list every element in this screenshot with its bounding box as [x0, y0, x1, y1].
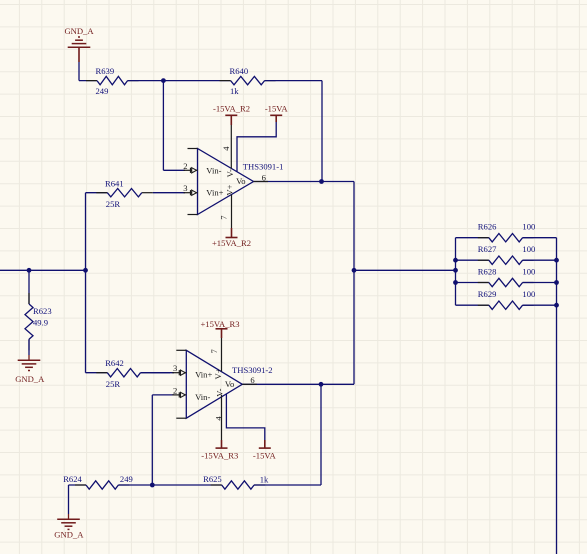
svg-text:1k: 1k: [260, 474, 269, 484]
svg-text:2: 2: [183, 161, 187, 171]
svg-text:25R: 25R: [106, 199, 121, 209]
svg-text:6: 6: [262, 172, 267, 182]
svg-text:GND_A: GND_A: [54, 530, 84, 540]
svg-text:4: 4: [221, 146, 231, 151]
svg-text:7: 7: [219, 215, 229, 220]
svg-text:Vin-: Vin-: [195, 392, 210, 402]
svg-text:R626: R626: [478, 222, 497, 232]
svg-text:249: 249: [96, 86, 109, 96]
svg-text:7: 7: [209, 349, 219, 354]
svg-text:100: 100: [522, 266, 535, 276]
svg-text:Vo: Vo: [225, 379, 234, 389]
svg-text:+15VA_R2: +15VA_R2: [212, 238, 251, 248]
svg-text:R628: R628: [478, 266, 497, 276]
svg-text:R625: R625: [203, 474, 222, 484]
svg-text:Vin+: Vin+: [206, 188, 223, 198]
svg-text:THS3091-2: THS3091-2: [232, 365, 273, 375]
svg-text:Vin+: Vin+: [195, 370, 212, 380]
svg-text:V-: V-: [225, 169, 235, 177]
svg-text:R623: R623: [33, 306, 52, 316]
svg-text:THS3091-1: THS3091-1: [243, 161, 284, 171]
svg-text:R639: R639: [96, 66, 115, 76]
svg-text:-15VA: -15VA: [265, 103, 289, 113]
svg-text:2: 2: [173, 385, 177, 395]
svg-text:-15VA_R2: -15VA_R2: [213, 103, 250, 113]
svg-text:100: 100: [522, 244, 535, 254]
svg-text:4: 4: [214, 416, 224, 421]
svg-text:GND_A: GND_A: [15, 374, 45, 384]
svg-text:Vo: Vo: [236, 176, 245, 186]
svg-text:R640: R640: [230, 66, 249, 76]
svg-text:V+: V+: [225, 184, 235, 195]
svg-text:-15VA_R3: -15VA_R3: [201, 451, 238, 461]
svg-text:R629: R629: [478, 289, 497, 299]
svg-text:3: 3: [183, 183, 187, 193]
svg-text:1k: 1k: [230, 86, 239, 96]
svg-text:R624: R624: [63, 474, 82, 484]
svg-text:100: 100: [522, 222, 535, 232]
svg-text:249: 249: [120, 474, 133, 484]
svg-text:GND_A: GND_A: [64, 26, 94, 36]
svg-text:-15VA: -15VA: [253, 451, 277, 461]
svg-text:25R: 25R: [106, 379, 121, 389]
svg-text:100: 100: [522, 289, 535, 299]
svg-text:V-: V-: [214, 388, 224, 396]
svg-text:3: 3: [173, 363, 177, 373]
svg-text:R627: R627: [478, 244, 497, 254]
svg-text:R641: R641: [105, 179, 124, 189]
svg-text:R642: R642: [105, 358, 124, 368]
svg-text:+15VA_R3: +15VA_R3: [200, 319, 239, 329]
svg-text:49.9: 49.9: [33, 317, 48, 327]
svg-text:Vin-: Vin-: [206, 165, 221, 175]
